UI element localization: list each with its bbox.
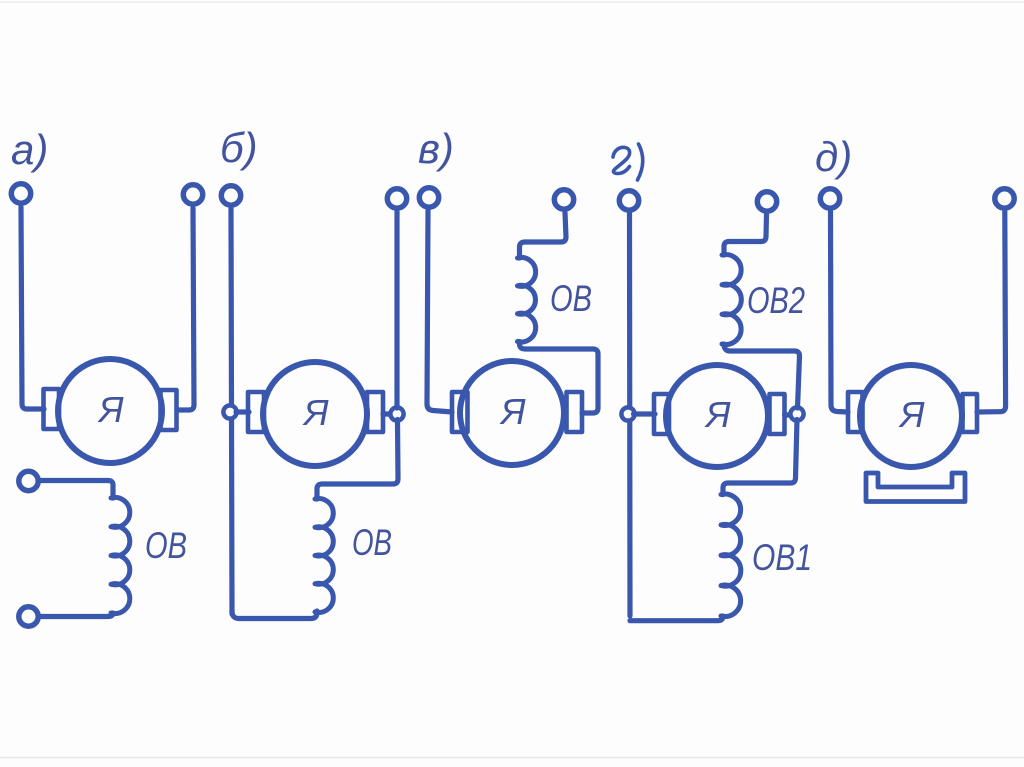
armature motor b (263, 362, 367, 466)
wire T6 down to node (b) (394, 212, 399, 409)
wire OV2 to right node (g) (724, 344, 800, 408)
terminal T10 (757, 192, 776, 211)
svg-text:Я: Я (97, 389, 124, 430)
brush left (b) (248, 392, 264, 432)
node right (g) (790, 407, 803, 420)
brush right (v) (567, 392, 583, 432)
field winding OV1 (721, 489, 741, 617)
wire node to left brush (g) (634, 411, 656, 416)
svg-text:ОВ1: ОВ1 (752, 537, 812, 578)
field winding OV (v) (518, 253, 536, 342)
wire T10 to coil OV2 top (724, 215, 767, 256)
svg-text:ОВ2: ОВ2 (747, 280, 805, 321)
wire node down to coil (b) (317, 420, 398, 500)
terminal T7 (419, 188, 438, 207)
terminal T2 (183, 185, 202, 204)
brush right (a) (161, 390, 177, 430)
brush left (a) (44, 389, 60, 429)
node left (b) (223, 405, 236, 418)
terminal T6 (387, 189, 406, 208)
svg-text:ОВ: ОВ (352, 522, 392, 563)
svg-text:Я: Я (704, 394, 731, 435)
armature motor d (860, 365, 962, 467)
wire right node down to coil OV1 (723, 420, 797, 495)
brush right (d) (963, 394, 978, 432)
terminal T5 (221, 186, 240, 205)
wire T9 down left side (g) (627, 214, 633, 617)
svg-text:ОВ: ОВ (550, 278, 592, 319)
wire right brush to T12 (977, 212, 1006, 413)
svg-text:в): в) (418, 125, 454, 172)
svg-text:Я: Я (898, 394, 925, 435)
wire T8 to coil top (v) (520, 213, 567, 259)
node left (g) (621, 407, 634, 420)
wire T5 down left side (231, 209, 232, 615)
svg-text:д): д) (815, 133, 852, 180)
permanent magnet symbol (866, 473, 965, 502)
wire right brush to node (g) (785, 412, 792, 417)
brush left (d) (848, 392, 863, 432)
wire right brush to T2 (177, 208, 194, 410)
terminal T3 (19, 471, 38, 490)
brush left (g) (654, 394, 669, 434)
terminal T11 (820, 189, 839, 208)
wire T7 to left brush (v) (427, 211, 452, 413)
terminal T9 (619, 191, 638, 210)
svg-text:а): а) (11, 126, 48, 173)
node right (b) (390, 407, 403, 420)
terminal T8 (554, 190, 573, 209)
brush right (b) (367, 392, 383, 432)
terminal T12 (995, 189, 1014, 208)
svg-text:Я: Я (302, 392, 329, 433)
terminal T1 (11, 184, 30, 203)
wire T3 to coil top (38, 481, 113, 499)
svg-text:Я: Я (499, 391, 526, 432)
armature motor g (666, 365, 768, 467)
armature motor v (460, 361, 564, 465)
terminal T4 (19, 607, 38, 626)
wire node to left brush (b) (236, 409, 249, 414)
armature motor a (58, 359, 162, 463)
wire OV1 bottom to left side (g) (630, 616, 723, 621)
field winding OV2 (722, 250, 741, 344)
label g) (613, 147, 630, 173)
svg-text:б): б) (220, 124, 258, 171)
brush left (v) (452, 392, 468, 432)
brush right (g) (770, 394, 785, 434)
wire T11 to left brush (d) (831, 212, 849, 413)
wire coil to right brush (v) (520, 342, 599, 414)
svg-text:ОВ: ОВ (145, 525, 187, 566)
wire bottom (b) (232, 611, 317, 619)
wire right brush to node (b) (383, 411, 391, 416)
wire T1 to left brush (21, 207, 44, 409)
field winding OV (a) (111, 493, 130, 614)
field winding OV (b) (315, 494, 333, 612)
wire coil bottom to T4 (39, 613, 113, 617)
